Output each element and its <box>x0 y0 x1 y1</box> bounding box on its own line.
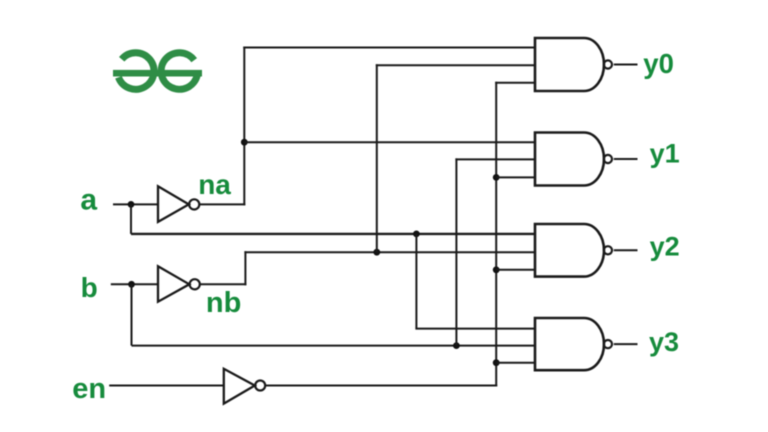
svg-text:nb: nb <box>206 287 241 319</box>
node a branch <box>413 231 420 238</box>
wire b branch vertical <box>455 158 457 345</box>
wire en input <box>109 385 224 387</box>
svg-text:a: a <box>80 184 97 217</box>
wire a to gate3 input1 <box>131 233 535 235</box>
wire en to gate2 input3 <box>496 176 535 178</box>
wire b input <box>111 283 158 285</box>
nand gate U4 y0 <box>535 38 612 91</box>
wire b vertical drop <box>131 284 133 345</box>
wire en riser vertical <box>495 82 497 387</box>
inverter U1 a->na <box>158 186 199 222</box>
wire en output horizontal <box>265 385 497 387</box>
node a junction <box>128 201 135 208</box>
wire y3 output <box>614 343 638 345</box>
svg-text:y0: y0 <box>643 48 674 79</box>
svg-text:y2: y2 <box>650 232 680 262</box>
node b branch <box>453 342 460 349</box>
wire nb branch vertical <box>376 64 378 252</box>
node nb branch <box>373 249 380 256</box>
node en branch g2 <box>493 174 500 181</box>
nand gate U5 y1 <box>535 133 612 186</box>
wire b to gate2 input2 <box>455 158 535 160</box>
wire na riser vertical <box>243 47 245 206</box>
wire na output horizontal <box>199 203 245 205</box>
svg-text:y3: y3 <box>649 327 679 357</box>
node b junction <box>128 281 135 288</box>
wire a vertical drop <box>130 204 132 234</box>
wire y2 output <box>614 249 638 251</box>
geeksforgeeks logo <box>113 53 202 90</box>
wire en to gate1 input3 <box>495 82 535 84</box>
wire en to gate3 input3 <box>496 269 535 271</box>
inverter U2 b->nb <box>158 266 200 301</box>
wire na to gate1 input1 <box>243 47 535 49</box>
wire b to gate4 input2 <box>132 345 536 347</box>
wire nb to gate3 input2 <box>244 251 535 253</box>
wire nb output horizontal <box>200 283 247 285</box>
nand gate U6 y2 <box>535 224 612 277</box>
wire na to gate2 input1 <box>244 141 535 143</box>
svg-text:b: b <box>81 272 98 303</box>
wire y1 output <box>614 158 638 160</box>
wire a branch vertical <box>415 234 417 329</box>
svg-text:y1: y1 <box>650 139 680 169</box>
inverter U3 en <box>224 369 265 404</box>
wire en to gate4 input3 <box>496 362 535 364</box>
svg-text:en: en <box>72 373 106 405</box>
wire a input <box>113 203 158 205</box>
svg-text:na: na <box>198 169 231 200</box>
wire a to gate4 input1 <box>415 328 535 330</box>
wire nb to gate1 input2 <box>376 64 535 66</box>
wire nb riser vertical <box>244 251 246 285</box>
node na branch <box>241 139 248 146</box>
node en branch g4 <box>493 359 500 366</box>
nand gate U7 y3 <box>535 318 612 370</box>
node en branch g3 <box>493 266 500 273</box>
wire y0 output <box>614 64 638 66</box>
